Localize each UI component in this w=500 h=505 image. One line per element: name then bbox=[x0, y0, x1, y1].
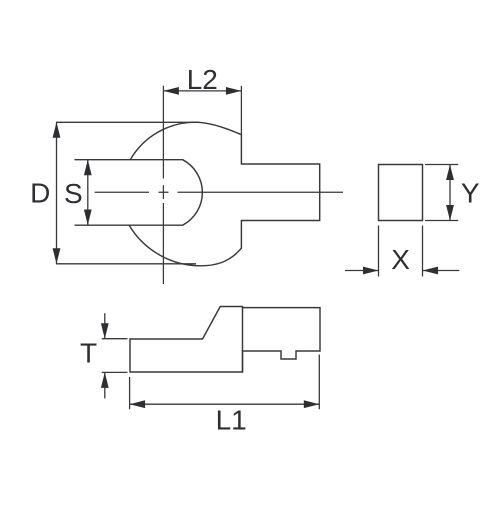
svg-text:L2: L2 bbox=[187, 64, 218, 95]
svg-text:Y: Y bbox=[461, 178, 480, 209]
svg-text:T: T bbox=[80, 337, 97, 368]
svg-text:L1: L1 bbox=[216, 405, 247, 436]
svg-text:X: X bbox=[391, 244, 410, 275]
svg-text:S: S bbox=[64, 178, 83, 209]
svg-text:D: D bbox=[30, 177, 50, 208]
